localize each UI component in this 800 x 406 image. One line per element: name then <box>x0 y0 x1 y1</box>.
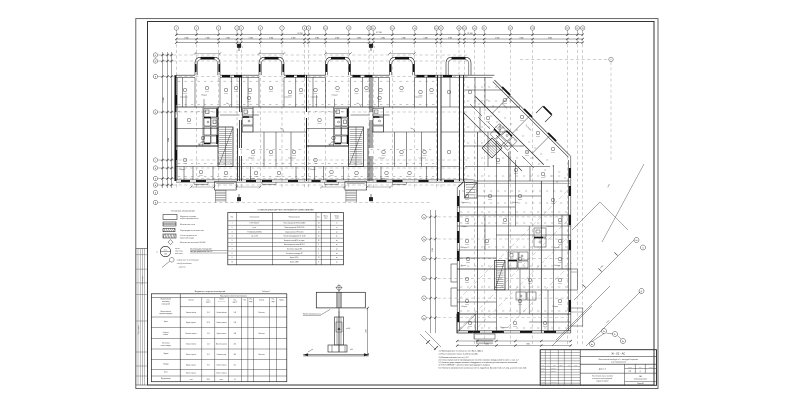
detail ground line with arrows <box>303 349 369 356</box>
svg-text:2.) Расстановочные планы, h-2,: 2.) Расстановочные планы, h-2,80 м см.м.… <box>439 353 479 356</box>
svg-text:ТУ 5842-001-05297602: ТУ 5842-001-05297602 <box>247 231 262 233</box>
svg-text:Общая: Общая <box>552 306 558 308</box>
junction porch <box>458 181 477 198</box>
detail base <box>328 345 353 352</box>
svg-text:Потолки: Потолки <box>188 300 194 302</box>
svg-text:Монолитные включения 300-400: Монолитные включения 300-400 <box>180 242 206 244</box>
svg-text:то же: то же <box>189 379 193 381</box>
wing diagonal axis lines <box>458 188 572 333</box>
svg-text:щадь: щадь <box>249 301 253 303</box>
svg-text:Ведомость отделки помещений: Ведомость отделки помещений <box>195 290 226 293</box>
svg-text:3в: 3в <box>423 259 425 261</box>
svg-text:Бв: Бв <box>603 331 605 333</box>
band left end wall <box>175 75 177 181</box>
svg-text:4в: 4в <box>423 278 425 280</box>
svg-text:5 980: 5 980 <box>548 37 552 39</box>
svg-text:5,98: 5,98 <box>234 322 237 324</box>
svg-text:перегородки: перегородки <box>218 301 226 303</box>
wing bottom dimension lines <box>456 340 572 347</box>
svg-text:14,1: 14,1 <box>234 364 237 366</box>
svg-text:по ГОСТ 24698-81* с уплотнение: по ГОСТ 24698-81* с уплотнением прокладк… <box>439 364 491 366</box>
wing vertical dimension chains <box>429 210 436 333</box>
svg-text:Подп: Подп <box>568 365 571 367</box>
svg-text:Масляная: Масляная <box>259 354 265 356</box>
wing interior horizontal walls <box>457 196 571 322</box>
svg-text:Клеевая побелка: Клеевая побелка <box>186 312 197 314</box>
svg-text:10: 10 <box>231 261 233 263</box>
svg-text:сер. 1.138: сер. 1.138 <box>251 236 258 238</box>
sheet outer border <box>136 19 658 389</box>
diagonal bathroom cluster <box>489 124 517 152</box>
svg-text:а=100: а=100 <box>346 328 350 330</box>
left row grid bubbles <box>153 53 157 187</box>
section mark 2 top <box>369 44 376 51</box>
svg-text:Сборки оконные ОР 15х13,5: Сборки оконные ОР 15х13,5 <box>285 231 304 233</box>
svg-text:23 750: 23 750 <box>297 33 302 35</box>
svg-text:кирпичной кладки: кирпичной кладки <box>180 236 194 239</box>
svg-text:Условные обозначения: Условные обозначения <box>171 210 195 212</box>
svg-text:щадь: щадь <box>271 301 275 303</box>
diagonal stair <box>482 138 502 158</box>
svg-text:Петрова: Петрова <box>551 371 556 373</box>
svg-text:Стадия: Стадия <box>628 366 632 368</box>
svg-text:- низ (в) вентблоков: - низ (в) вентблоков <box>176 263 192 265</box>
svg-text:Панели перегородочные ПГ 12-30: Панели перегородочные ПГ 12-30 <box>283 236 305 238</box>
svg-text:Иванова: Иванова <box>551 368 556 370</box>
svg-text:Общая: Общая <box>461 247 467 249</box>
svg-text:Лоджии: Лоджии <box>163 353 168 355</box>
top dimension chain lines <box>175 33 584 43</box>
wing stair <box>495 260 505 289</box>
svg-text:54,6: 54,6 <box>164 253 167 255</box>
svg-text:6.) Отметки и привязки всех ба: 6.) Отметки и привязки всех балконных пл… <box>439 366 528 369</box>
wing bottom wall <box>457 331 571 333</box>
diagonal wing interior walls <box>463 96 570 184</box>
title block project name cell <box>580 358 656 364</box>
wing interior vertical walls <box>477 132 562 333</box>
svg-text:Клеевая побелка: Клеевая побелка <box>186 344 197 346</box>
svg-text:5в: 5в <box>423 298 425 300</box>
diagonal fine speckles <box>462 87 566 203</box>
svg-text:Клеевая окраска: Клеевая окраска <box>216 322 226 324</box>
svg-text:Кол: Кол <box>547 365 549 367</box>
svg-text:32: 32 <box>318 240 320 242</box>
diagonal room labels <box>501 103 532 132</box>
svg-text:- прогоны: - прогоны <box>178 267 186 269</box>
wing right outer wall <box>569 156 571 333</box>
svg-text:Пло-: Пло- <box>207 299 211 301</box>
legend swatch 4 brick partitions <box>163 234 197 239</box>
svg-text:5 980: 5 980 <box>381 37 385 39</box>
svg-text:ед.кг: ед.кг <box>324 218 328 220</box>
svg-text:6в: 6в <box>423 318 425 320</box>
svg-text:Общая: Общая <box>461 306 467 308</box>
svg-text:5 980: 5 980 <box>402 37 406 39</box>
svg-text:Окраска влагост.: Окраска влагост. <box>216 333 227 335</box>
wing room labels <box>461 202 560 329</box>
section mark 2 bottom <box>369 194 373 201</box>
svg-text:5 980: 5 980 <box>315 37 319 39</box>
svg-text:Обозначение: Обозначение <box>249 217 259 219</box>
svg-text:План типового этажа с панелями: План типового этажа с панелями <box>592 376 613 378</box>
svg-text:Сидорова: Сидорова <box>551 382 557 384</box>
detail vertical dimension <box>366 307 369 356</box>
svg-text:УСТАНОВОЧНЫЙ ЧЕРТЁЖ К МОНТАЖНО: УСТАНОВОЧНЫЙ ЧЕРТЁЖ К МОНТАЖНОЙ СХЕМЕ ПА… <box>258 208 315 211</box>
svg-text:Гв: Гв <box>642 248 644 250</box>
svg-text:жил.площ.: жил.площ. <box>175 253 183 255</box>
svg-text:21 900: 21 900 <box>467 33 472 35</box>
svg-text:Экраны ЭЛ-1 т: Экраны ЭЛ-1 т <box>290 257 300 259</box>
svg-text:общ.площ.: общ.площ. <box>175 251 184 253</box>
legend swatch 3 partitions <box>163 228 204 232</box>
svg-text:Масляная окраска: Масляная окраска <box>185 333 196 335</box>
svg-text:5,48: 5,48 <box>234 312 237 314</box>
wing fine dimension speckles <box>460 212 567 328</box>
svg-text:Пло-: Пло- <box>233 299 237 301</box>
svg-text:Лестничная: Лестничная <box>162 343 170 345</box>
svg-text:36,8: 36,8 <box>234 354 237 356</box>
svg-text:18: 18 <box>318 227 320 229</box>
left grid horizontal dashed lines <box>158 55 470 185</box>
svg-text:5 980: 5 980 <box>448 37 452 39</box>
svg-text:чание: чание <box>335 218 339 220</box>
svg-text:138,1: 138,1 <box>207 379 211 381</box>
section mark 1 top <box>237 44 244 51</box>
svg-text:или номер: или номер <box>162 301 169 303</box>
legend apartment circle symbol <box>156 246 227 256</box>
svg-text:6 000: 6 000 <box>168 138 170 142</box>
svg-text:5980: 5980 <box>485 344 489 346</box>
lower-left diagonal dimension ticks <box>420 331 441 350</box>
svg-text:Приме-: Приме- <box>335 215 340 217</box>
svg-text:Спальня: Спальня <box>546 226 554 228</box>
svg-text:Лестничные марши ЛМ: Лестничные марши ЛМ <box>287 249 303 251</box>
svg-text:Наименование: Наименование <box>289 217 300 219</box>
svg-text:1.) Жилой дом (см. ген.план) с: 1.) Жилой дом (см. ген.план) см. лист АС… <box>439 349 484 352</box>
svg-text:3.) Монолитный пояс (см. м.п.): 3.) Монолитный пояс (см. м.п.) 1:2 <box>439 356 469 359</box>
svg-text:1в: 1в <box>423 217 425 219</box>
top dimension labels <box>184 32 552 40</box>
svg-text:Кухня: Кухня <box>554 247 559 249</box>
svg-text:47 240: 47 240 <box>376 32 382 34</box>
detail leader label <box>303 310 330 316</box>
legend diamond symbol <box>168 240 206 245</box>
section mark 1 bottom <box>237 194 241 201</box>
svg-text:Н.контр: Н.контр <box>541 382 546 384</box>
svg-text:5 980: 5 980 <box>184 37 188 39</box>
diagonal bay window <box>536 106 552 122</box>
svg-text:20,4: 20,4 <box>207 312 210 314</box>
svg-text:Наименование: Наименование <box>161 299 172 301</box>
diagonal room circles <box>486 98 555 177</box>
svg-text:2500: 2500 <box>366 329 368 333</box>
svg-text:Изм: Изм <box>541 365 543 367</box>
svg-text:Вид отделки элементов интерьер: Вид отделки элементов интерьеров <box>220 296 247 298</box>
svg-text:5 980: 5 980 <box>424 37 428 39</box>
svg-text:24,6: 24,6 <box>234 344 237 346</box>
svg-text:24,2: 24,2 <box>207 333 210 335</box>
svg-text:24,2: 24,2 <box>207 344 210 346</box>
detail post assembly <box>335 311 351 352</box>
legend leader symbol <box>162 258 199 269</box>
svg-text:клетка,тамбуры: клетка,тамбуры <box>161 345 171 347</box>
svg-text:Лестничные площадки ЛП: Лестничные площадки ЛП <box>286 253 303 255</box>
left vertical dimension chains <box>153 52 172 195</box>
title block document number cell <box>580 352 656 357</box>
sheet inner frame <box>148 22 655 386</box>
legend swatch 2 blocks <box>163 222 196 226</box>
svg-text:12: 12 <box>318 231 320 233</box>
specification table <box>228 213 344 265</box>
svg-text:Вентиляционные блоки ВБ 30-1: Вентиляционные блоки ВБ 30-1 <box>284 244 305 246</box>
svg-text:5 980: 5 980 <box>226 37 230 39</box>
svg-text:Клеевая окраска: Клеевая окраска <box>216 364 226 366</box>
svg-text:Водоэм. окраска: Водоэм. окраска <box>186 322 196 324</box>
svg-text:Известк. окраска: Известк. окраска <box>186 373 196 375</box>
svg-text:12 000: 12 000 <box>163 97 165 102</box>
wing bottom-right balcony <box>571 308 583 326</box>
wing left outer wall <box>457 187 459 333</box>
svg-text:Полы: Полы <box>164 372 168 374</box>
svg-text:5 980: 5 980 <box>269 37 273 39</box>
svg-text:Масляная: Масляная <box>259 333 265 335</box>
wing left grid bubbles <box>422 215 426 320</box>
svg-text:прихожие,коридоры: прихожие,коридоры <box>159 313 172 315</box>
finish table <box>151 294 286 382</box>
svg-text:Масляная окраска: Масляная окраска <box>216 344 227 346</box>
building band module B <box>307 52 438 202</box>
svg-text:Ж: Ж <box>155 61 157 63</box>
svg-text:5 980: 5 980 <box>291 37 295 39</box>
wing left balconies <box>451 264 457 306</box>
left margin attribute table <box>136 249 148 386</box>
wing room circles <box>465 194 562 326</box>
svg-text:№док: №док <box>560 365 564 367</box>
svg-text:Экспликацию помещений: Экспликацию помещений <box>190 248 211 251</box>
svg-text:5 980: 5 980 <box>519 37 523 39</box>
diagonal dimension bottom bubbles <box>590 329 626 347</box>
svg-text:Таблица 2: Таблица 2 <box>262 291 271 293</box>
svg-text:Жилые комнаты,: Жилые комнаты, <box>160 311 172 313</box>
svg-text:Лист: Лист <box>639 366 642 368</box>
wing right balcony <box>571 269 578 290</box>
svg-text:Дв: Дв <box>622 341 624 343</box>
row grid line below building <box>153 200 430 204</box>
svg-text:Перегородки из гипсовых плит: Перегородки из гипсовых плит <box>180 230 204 232</box>
svg-text:Санузлы,: Санузлы, <box>163 332 170 334</box>
top column grid bubbles <box>174 26 585 30</box>
svg-text:Масса: Масса <box>324 215 328 217</box>
svg-text:22: 22 <box>318 257 320 259</box>
svg-text:5 980: 5 980 <box>357 37 361 39</box>
band end bay window <box>446 57 471 75</box>
svg-text:Панели: Панели <box>259 300 264 302</box>
svg-text:ведомости отделки: ведомости отделки <box>596 381 608 383</box>
svg-text:5 980: 5 980 <box>206 37 210 39</box>
svg-text:то же: то же <box>253 227 257 229</box>
svg-text:5 980: 5 980 <box>495 37 499 39</box>
svg-text:Монолитные стены: Монолитные стены <box>180 224 196 226</box>
top grid vertical dashed lines <box>176 30 582 345</box>
svg-text:3,2: 3,2 <box>234 379 236 381</box>
svg-text:16: 16 <box>318 236 320 238</box>
svg-text:24: 24 <box>318 223 320 225</box>
svg-text:Водоэм. окраска: Водоэм. окраска <box>186 364 196 366</box>
svg-text:29,2: 29,2 <box>207 364 210 366</box>
band right end walls <box>437 75 524 182</box>
svg-text:- номер пом. по экспликации: - номер пом. по экспликации <box>176 260 199 262</box>
svg-text:Дата: Дата <box>574 365 577 367</box>
svg-text:5 980: 5 980 <box>335 37 339 39</box>
svg-text:Подп. и дата: Подп. и дата <box>138 325 140 334</box>
title block frame <box>540 350 656 386</box>
svg-text:Вв: Вв <box>636 240 638 242</box>
diagonal wing outer wall <box>493 80 570 157</box>
notes text block <box>439 349 528 369</box>
wing bottom porch steps <box>457 314 495 344</box>
detail slab rectangle <box>316 290 365 311</box>
svg-text:Тамбуры: Тамбуры <box>163 363 169 365</box>
svg-text:ванные: ванные <box>163 334 168 336</box>
svg-text:197,6: 197,6 <box>207 322 211 324</box>
svg-text:Мусорокамера: Мусорокамера <box>161 378 171 380</box>
svg-text:тип кв.: тип кв. <box>175 248 180 250</box>
svg-text:Ж - 02 - АС: Ж - 02 - АС <box>611 352 625 356</box>
svg-text:Силикатная окр.: Силикатная окр. <box>217 354 228 356</box>
svg-text:Низ: Низ <box>244 300 247 302</box>
svg-text:Известк. окраска: Известк. окраска <box>186 354 196 356</box>
title block bottom cells <box>592 373 656 385</box>
svg-text:панели керамзитобетон: панели керамзитобетон <box>180 218 199 220</box>
svg-text:26,1: 26,1 <box>207 354 210 356</box>
svg-text:5980: 5980 <box>526 344 530 346</box>
title block stage-sheet cells <box>580 364 656 373</box>
building band module A <box>176 52 307 202</box>
svg-text:5 980: 5 980 <box>432 248 434 252</box>
svg-text:Стены и: Стены и <box>219 299 225 301</box>
wing grid dashed lines <box>426 217 571 318</box>
detail crosshair mark <box>336 284 343 291</box>
svg-text:Листов: Листов <box>649 366 653 368</box>
svg-text:Примеч.: Примеч. <box>279 300 285 302</box>
title block left grid <box>540 350 580 386</box>
diagonal dimension rays <box>520 57 646 346</box>
svg-text:Кухни: Кухни <box>164 321 168 323</box>
svg-text:Лист: Лист <box>553 365 556 367</box>
svg-text:2в: 2в <box>423 239 425 241</box>
svg-text:2-х к.: 2-х к. <box>164 249 168 251</box>
svg-text:Масляная: Масляная <box>259 312 265 314</box>
svg-text:Тамбовгражданпроект: Тамбовгражданпроект <box>634 379 648 381</box>
wing bathroom cluster <box>508 228 546 300</box>
legend swatch 1 masonry <box>163 215 199 221</box>
svg-text:5 980: 5 980 <box>249 37 253 39</box>
svg-text:Разраб: Разраб <box>541 368 545 370</box>
svg-text:Известк. окраска: Известк. окраска <box>216 373 226 375</box>
svg-text:ГОСТ 9561-91*: ГОСТ 9561-91* <box>250 223 260 225</box>
svg-text:Дом № 2: Дом № 2 <box>599 367 606 370</box>
svg-text:Общая: Общая <box>461 226 467 228</box>
svg-text:4,86: 4,86 <box>234 333 237 335</box>
